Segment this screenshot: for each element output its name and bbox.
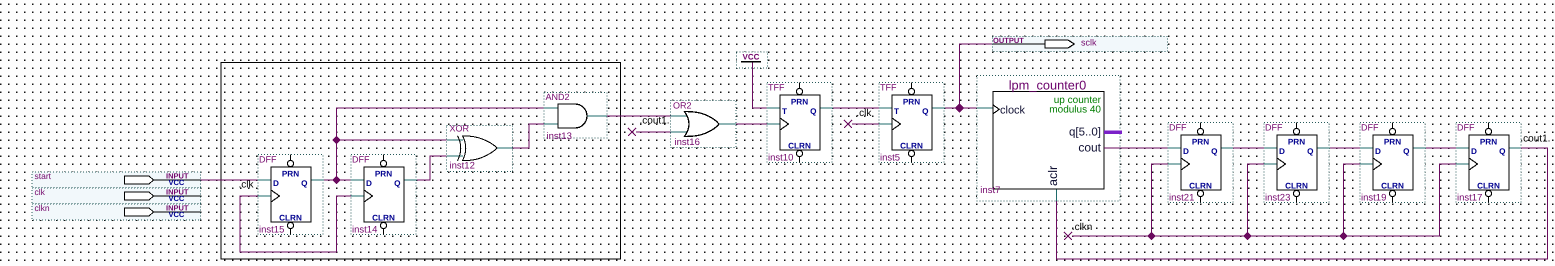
svg-text:Q: Q [301, 179, 308, 188]
svg-text:sclk: sclk [1081, 38, 1097, 48]
svg-text:D: D [1279, 147, 1285, 156]
svg-text:Q: Q [394, 179, 401, 188]
flip-flop DFF inst15 [258, 155, 324, 236]
svg-text:VCC: VCC [743, 53, 760, 62]
svg-text:D: D [1183, 147, 1189, 156]
svg-text:XOR: XOR [450, 124, 470, 134]
svg-text:DFF: DFF [259, 155, 277, 165]
bus q[5..0] stub [1104, 130, 1122, 134]
svg-text:PRN: PRN [1192, 138, 1209, 147]
flip-flop TFF inst10 [767, 83, 833, 164]
svg-text:inst21: inst21 [1169, 193, 1194, 204]
svg-text:VCC: VCC [169, 210, 185, 219]
wire inst21 Q to inst23 D [1233, 147, 1264, 149]
svg-text:D: D [273, 179, 279, 188]
svg-text:inst17: inst17 [1457, 193, 1482, 204]
wire .clk clock loop [240, 196, 351, 252]
svg-text:.cout1.: .cout1. [1520, 134, 1550, 145]
svg-text:DFF: DFF [352, 155, 370, 165]
svg-text:clk: clk [35, 187, 46, 197]
svg-text:CLRN: CLRN [1189, 182, 1212, 191]
wire DFF inst14 Q to XOR bottom input [417, 156, 447, 180]
output pin sclk [993, 36, 1168, 52]
svg-text:inst16: inst16 [675, 137, 700, 148]
svg-text:VCC: VCC [169, 194, 185, 203]
svg-text:AND2: AND2 [546, 92, 570, 102]
dangling x .cout1 [628, 128, 636, 136]
junction .clkn 1 [1148, 233, 1155, 240]
flip-flop DFF inst17 [1456, 123, 1522, 204]
svg-text:DFF: DFF [1265, 123, 1283, 133]
wire .clk to TFF inst5 clock [852, 123, 879, 125]
svg-text:CLRN: CLRN [1285, 182, 1308, 191]
svg-text:T: T [782, 107, 787, 116]
block boundary box [221, 63, 621, 260]
svg-text:PRN: PRN [1288, 138, 1305, 147]
svg-text:PRN: PRN [375, 170, 392, 179]
wire TFF inst10 Q to TFF inst5 T [833, 107, 879, 109]
flip-flop DFF inst19 [1360, 123, 1426, 204]
svg-text:PRN: PRN [791, 98, 808, 107]
svg-text:Q: Q [810, 107, 817, 116]
svg-text:Q: Q [1211, 147, 1218, 156]
svg-text:cout: cout [1078, 141, 1101, 155]
input pin clkn [32, 203, 201, 220]
wire .clkn to inst23 clock [1248, 164, 1265, 236]
svg-text:Q: Q [1403, 147, 1410, 156]
svg-text:PRN: PRN [282, 170, 299, 179]
flip-flop DFF inst14 [351, 155, 417, 236]
svg-text:PRN: PRN [1384, 138, 1401, 147]
wire .clkn horizontal [1072, 164, 1456, 236]
svg-text:CLRN: CLRN [900, 142, 923, 151]
svg-text:PRN: PRN [1480, 138, 1497, 147]
svg-text:DFF: DFF [1169, 123, 1187, 133]
xor-gate XOR inst12 [447, 124, 513, 172]
svg-text:inst14: inst14 [352, 225, 377, 236]
flip-flop TFF inst5 [879, 83, 945, 164]
svg-text:.cout1.: .cout1. [640, 116, 670, 127]
flip-flop DFF inst21 [1168, 123, 1234, 204]
svg-text:CLRN: CLRN [1477, 182, 1500, 191]
svg-text:inst10: inst10 [768, 153, 793, 164]
wire AND2 output to OR2 input [607, 115, 687, 117]
svg-text:PRN: PRN [903, 98, 920, 107]
svg-text:OR2: OR2 [673, 101, 692, 111]
svg-text:T: T [894, 107, 899, 116]
svg-text:TFF: TFF [768, 83, 785, 93]
wire inst17 Q to aclr feedback [1057, 148, 1548, 259]
power VCC [737, 52, 768, 68]
svg-text:.clkn: .clkn [1072, 222, 1093, 233]
svg-text:.clk: .clk [856, 108, 872, 119]
svg-text:clock: clock [1000, 105, 1026, 117]
input pin clk [32, 187, 201, 204]
counter lpm_counter0 inst7 [977, 76, 1120, 202]
svg-text:D: D [1471, 147, 1477, 156]
and-gate AND2 inst13 [544, 92, 607, 142]
svg-text:OUTPUT: OUTPUT [993, 36, 1024, 45]
wire cout to DFF inst21 D [1104, 147, 1168, 149]
svg-text:q[5..0]: q[5..0] [1069, 127, 1101, 139]
wire .cout1 to OR2 bottom input [636, 131, 687, 133]
svg-text:CLRN: CLRN [1381, 182, 1404, 191]
svg-text:inst13: inst13 [547, 131, 572, 142]
wire .clkn to inst19 clock [1344, 164, 1361, 236]
svg-text:VCC: VCC [169, 178, 185, 187]
junction sclk branch [956, 104, 964, 112]
wire start to DFF inst15 D [201, 179, 259, 181]
svg-text:inst12: inst12 [450, 161, 475, 172]
svg-text:modulus 40: modulus 40 [1049, 105, 1101, 116]
wire OR2 output to TFF inst10 clock [736, 123, 767, 125]
dangling x .clkn [1064, 232, 1072, 240]
svg-text:Q: Q [1307, 147, 1314, 156]
svg-text:inst5: inst5 [880, 153, 900, 164]
svg-text:start: start [35, 171, 52, 181]
pin clock of lpm_counter0 [993, 105, 999, 114]
wire XOR output to AND2 input [513, 124, 545, 148]
junction .clkn 2 [1244, 233, 1251, 240]
svg-text:D: D [1375, 147, 1381, 156]
svg-text:inst23: inst23 [1265, 193, 1290, 204]
svg-text:CLRN: CLRN [372, 214, 395, 223]
wire inst19 Q to inst17 D [1426, 147, 1456, 149]
svg-text:lpm_counter0: lpm_counter0 [1009, 78, 1087, 93]
svg-text:CLRN: CLRN [279, 214, 302, 223]
svg-text:Q: Q [922, 107, 929, 116]
svg-text:Q: Q [1499, 147, 1506, 156]
svg-text:inst7: inst7 [980, 185, 1000, 196]
wire to OUTPUT sclk [960, 44, 993, 108]
dangling x .clk [844, 120, 852, 128]
svg-text:D: D [366, 179, 372, 188]
wire node A vertical feedback [337, 108, 545, 180]
svg-text:inst19: inst19 [1361, 193, 1386, 204]
svg-text:aclr: aclr [1046, 166, 1060, 186]
junction node A at Q1 [333, 177, 339, 183]
svg-text:inst15: inst15 [259, 225, 284, 236]
wire VCC to TFF inst10 T [753, 62, 767, 108]
svg-text:.clk: .clk [239, 180, 255, 191]
svg-text:CLRN: CLRN [788, 142, 811, 151]
junction node A at XOR branch [333, 137, 339, 143]
wire Q1 to D2 [324, 179, 351, 181]
junction .clkn 3 [1340, 233, 1347, 240]
or-gate OR2 inst16 [671, 101, 737, 149]
wire XOR top input [337, 139, 448, 141]
flip-flop DFF inst23 [1264, 123, 1330, 204]
svg-text:DFF: DFF [1361, 123, 1379, 133]
input pin start [32, 171, 201, 188]
svg-text:clkn: clkn [35, 203, 50, 213]
svg-text:TFF: TFF [880, 83, 897, 93]
wire TFF inst5 Q to lpm clock [945, 107, 977, 109]
svg-text:DFF: DFF [1457, 123, 1475, 133]
wire inst23 Q to inst19 D [1330, 147, 1360, 149]
wire .clkn to inst21 clock [1152, 164, 1169, 236]
